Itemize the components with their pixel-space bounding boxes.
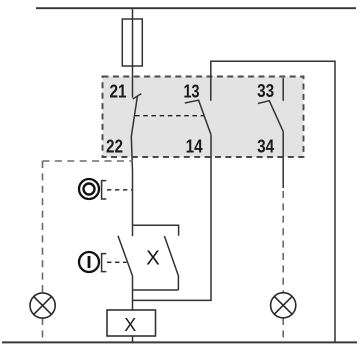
fuse F1 <box>122 19 142 66</box>
contact I terminal stub <box>132 225 134 236</box>
svg-text:14: 14 <box>186 135 204 156</box>
pushbutton I actuator bracket <box>102 254 107 272</box>
mechanical linkage dashed line between blades <box>135 115 204 117</box>
contact 21-22 moving blade <box>131 96 137 171</box>
main vertical wire from top rail to contact 21 <box>132 8 134 97</box>
pushbutton I dashed link <box>107 261 127 263</box>
contact 33 terminal stub <box>282 78 284 101</box>
wire below contact 22 down to parallel group <box>132 171 134 225</box>
contact I NO blade <box>118 236 132 276</box>
svg-text:21: 21 <box>110 80 127 101</box>
contact 33-34 NO blade <box>258 101 283 132</box>
relay block shaded box <box>103 77 304 158</box>
wire from contact I down to coil <box>132 276 134 310</box>
top supply rail wire <box>36 7 356 9</box>
svg-text:33: 33 <box>257 80 274 101</box>
parallel group top bracket wire <box>133 225 179 236</box>
bottom supply rail wire <box>2 341 357 343</box>
svg-text:X: X <box>124 315 136 335</box>
svg-text:X: X <box>146 246 160 269</box>
contact 13-14 NO blade <box>185 100 211 135</box>
dashed wire from left lamp to bottom rail <box>42 318 44 342</box>
pushbutton O actuator bracket <box>102 181 107 199</box>
dashed wire down to left lamp <box>42 161 44 293</box>
parallel group bottom bracket wire <box>133 289 179 291</box>
lamp right <box>271 293 296 318</box>
lamp left <box>30 293 55 318</box>
dashed branch wire to left lamp (horizontal) <box>43 160 133 162</box>
wire from contact 14 down and left to coil node <box>133 135 212 301</box>
coil X box <box>107 310 156 336</box>
wire from node above contact 13 <box>211 61 335 342</box>
pushbutton O head <box>79 179 99 199</box>
contact 21-22 NC seat tick <box>133 94 142 99</box>
wire from contact 34 down (solid part) <box>282 132 284 189</box>
svg-text:13: 13 <box>184 80 200 101</box>
dashed wire from 34 to right lamp <box>282 191 284 293</box>
pushbutton I head <box>79 252 99 272</box>
dashed wire from right lamp to bottom rail <box>282 318 284 342</box>
contact X NO blade <box>164 236 178 290</box>
svg-text:22: 22 <box>106 135 123 156</box>
svg-text:34: 34 <box>257 135 275 156</box>
wire from coil to bottom rail <box>132 336 134 342</box>
pushbutton O dashed link <box>107 189 133 191</box>
